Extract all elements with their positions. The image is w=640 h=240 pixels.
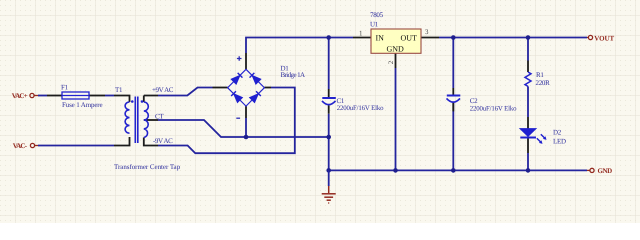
svg-text:GND: GND xyxy=(387,45,405,54)
svg-text:3: 3 xyxy=(425,28,429,36)
svg-text:CT: CT xyxy=(155,113,164,121)
svg-text:Bridge 1A: Bridge 1A xyxy=(281,71,306,79)
svg-text:F1: F1 xyxy=(61,84,69,92)
svg-text:+9V AC: +9V AC xyxy=(152,86,174,94)
svg-text:T1: T1 xyxy=(115,86,123,94)
svg-text:Transformer Center Tap: Transformer Center Tap xyxy=(114,163,181,171)
svg-text:220R: 220R xyxy=(536,79,551,87)
svg-text:U1: U1 xyxy=(370,21,379,29)
svg-text:1: 1 xyxy=(359,30,363,38)
svg-text:2200uF/16V Elko: 2200uF/16V Elko xyxy=(337,105,384,112)
svg-text:2: 2 xyxy=(387,60,395,64)
svg-text:Fuse 1 Ampere: Fuse 1 Ampere xyxy=(62,101,102,109)
svg-text:VOUT: VOUT xyxy=(594,35,614,43)
svg-text:C1: C1 xyxy=(337,97,345,105)
svg-text:VAC+: VAC+ xyxy=(12,92,28,100)
svg-text:7805: 7805 xyxy=(370,11,384,19)
svg-text:VAC-: VAC- xyxy=(13,142,28,150)
svg-text:LED: LED xyxy=(553,138,566,146)
svg-text:OUT: OUT xyxy=(401,34,418,43)
svg-text:IN: IN xyxy=(376,34,385,43)
svg-text:GND: GND xyxy=(598,167,613,175)
svg-text:C2: C2 xyxy=(470,97,478,105)
svg-text:2200uF/16V Elko: 2200uF/16V Elko xyxy=(470,105,517,112)
svg-text:R1: R1 xyxy=(536,71,544,79)
svg-text:-9V AC: -9V AC xyxy=(153,137,173,145)
svg-text:D2: D2 xyxy=(553,129,562,137)
